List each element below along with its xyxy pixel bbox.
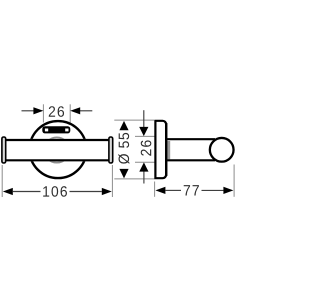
dim 106: left extension line (1, 165, 3, 197)
dim 77: left extension line (154, 182, 156, 197)
dim 106: right extension line (111, 165, 113, 197)
dim 26 top: left arrowhead (33, 107, 43, 114)
dim 26 side: top extension line (135, 135, 155, 137)
dim 26 top: left extension line (42, 104, 44, 122)
dim 106: right tail line (70, 191, 102, 193)
dim 106: label (43, 186, 67, 197)
side view: rosette right face edge (165, 123, 167, 176)
dim 77: left arrowhead (155, 187, 165, 194)
dim 26 top: left tail line (22, 110, 35, 112)
dim D55: top extension line (114, 119, 154, 121)
side view: gray neck (168, 141, 171, 159)
side view: arm white body (170, 140, 215, 159)
side view: ball end (210, 138, 234, 162)
side view: rosette body (155, 121, 166, 178)
dim 106: left tail line (13, 191, 41, 193)
dim 77: label (184, 185, 199, 195)
dim 77: right tail line (202, 189, 224, 191)
dim 77: right extension line (233, 165, 235, 197)
dim 77: left tail line (165, 189, 181, 191)
front view: rosette circle (30, 121, 87, 178)
side view: arm top edge (167, 138, 215, 140)
dim 26 top: label (49, 106, 64, 117)
side view: arm bottom edge (167, 159, 215, 161)
front view: right end cap (109, 137, 113, 163)
front view: mounting slot (42, 126, 70, 133)
dim 106: left arrowhead (3, 188, 13, 195)
dim 26 top: right extension line (69, 104, 71, 122)
dim 26 top: right arrowhead (70, 107, 80, 114)
dim D55: label (118, 133, 129, 164)
front view: slot right screw hole (65, 129, 68, 132)
dim 106: right arrowhead (102, 188, 112, 195)
dim 26 side: upper arrowhead (139, 127, 148, 136)
dim D55: lower arrowhead (119, 169, 128, 179)
dim 26 side: bottom extension line (135, 161, 155, 163)
front view: bar top edge (4, 139, 110, 141)
front view: gray post circle behind bar (44, 137, 69, 162)
dim 26 side: upper stem (143, 110, 145, 127)
dim 26 side: label (141, 140, 152, 155)
front view: slot left screw hole (45, 129, 48, 132)
dim D55: upper arrowhead (119, 121, 128, 130)
dim 77: right arrowhead (223, 187, 233, 194)
dim 26 side: lower arrowhead (139, 162, 148, 171)
front view: bar body (white fill masks circle) (4, 139, 110, 161)
front view: bar bottom edge (4, 159, 110, 161)
dim 26 top: right tail line (80, 110, 93, 112)
dim 26 side: lower stem (143, 171, 145, 184)
front view: left end cap (2, 137, 6, 163)
dim D55: bottom extension line (114, 178, 154, 180)
